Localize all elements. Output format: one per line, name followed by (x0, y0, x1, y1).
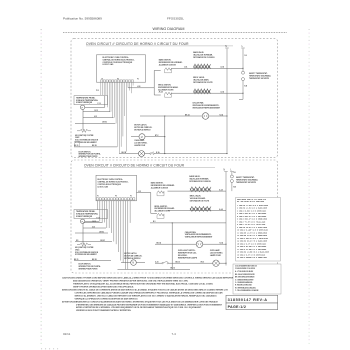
svg-text:7-4: 7-4 (172, 332, 177, 336)
wire JK,N/C (circuit 1) (75, 122, 115, 124)
svg-text:OVEN CIRCUIT // CIRCUITO DE HO: OVEN CIRCUIT // CIRCUITO DE HORNO // CIR… (86, 42, 189, 46)
EOC2 connector pin row (96, 196, 135, 200)
svg-text:SERVICIO AL APARATO. USE SOLO: SERVICIO AL APARATO. USE SOLO CABLE DE R… (75, 294, 218, 297)
svg-text:DOOR SWITCH-: DOOR SWITCH- (79, 264, 92, 266)
svg-text:P5: P5 (137, 78, 139, 80)
bake ignitor E1 (circuit 2) (151, 182, 175, 196)
HSI system note (circuit 2) (75, 247, 99, 256)
svg-text:SYSTEME HSI SEULEMENT: SYSTEME HSI SEULEMENT (75, 142, 97, 144)
svg-text:6-15: 6-15 (94, 116, 97, 118)
svg-text:PAGE:1/2: PAGE:1/2 (228, 305, 247, 309)
wire broil valve row JK-1A / A-1A (172, 92, 244, 94)
svg-text:VERIFIQUE LA OPERACION CORRECT: VERIFIQUE LA OPERACION CORRECTA DESPUES … (75, 297, 139, 300)
bake valve L1 (circuit 1) (193, 51, 215, 69)
electronic oven control U1 (circuit 2) (96, 175, 137, 201)
svg-text:DOOR SWITCH-: DOOR SWITCH- (79, 151, 92, 153)
svg-text:FFGS3025L: FFGS3025L (167, 17, 184, 21)
N rail (circuit 1) (226, 49, 228, 154)
svg-text:D'ENTRETIEN. DES ERREURS DE CA: D'ENTRETIEN. DES ERREURS DE CABLAGE PEUV… (76, 303, 223, 306)
oven circuit 1 dashed enclosure (71, 39, 278, 158)
wire chiller fan row BK-1A / N-1A (circuit 2) (155, 243, 196, 245)
svg-text:DE HORNO-: DE HORNO- (178, 255, 188, 257)
svg-text:MOTOR DE CERROJO-: MOTOR DE CERROJO- (134, 127, 152, 129)
svg-text:INTERRUPTEUR PORTE: INTERRUPTEUR PORTE (79, 156, 99, 158)
svg-text:LUZ DE HORNO-: LUZ DE HORNO- (134, 142, 147, 144)
wire 6-15 (circuit 2) (83, 227, 106, 229)
svg-text:LE EOC GAS: LE EOC GAS (98, 185, 109, 188)
wire broil valve row A-1A (circuit 2) (168, 210, 227, 212)
svg-text:AND DANGEROUS OPERATION. VERIF: AND DANGEROUS OPERATION. VERIFY PROPER O… (73, 280, 189, 283)
bake valve L1 (circuit 2) (189, 175, 211, 192)
broil valve L2 (circuit 2) (190, 195, 211, 212)
wire chiller fan row BK-1A / N-1A (140, 115, 202, 117)
safety thermostat S2 (circuit 1) (242, 71, 272, 80)
dotted header rule (63, 32, 287, 34)
svg-text:SONDE THERMIQUE: SONDE THERMIQUE (76, 102, 93, 104)
svg-text:APRES L'ENTRETIEN DE L'APPAREI: APRES L'ENTRETIEN DE L'APPAREIL. UTILISE… (76, 306, 202, 309)
svg-text:INTERRUPTEUR PORTE: INTERRUPTEUR PORTE (79, 269, 99, 271)
svg-text:HSI (IGNITOR) SYSTEM: HSI (IGNITOR) SYSTEM (75, 247, 94, 249)
oven lamp DS1 (circuit 2) (210, 249, 223, 266)
svg-text:318550147 REV:A: 318550147 REV:A (228, 298, 268, 302)
wire latch motor BT-X (131, 136, 139, 138)
svg-text:P5: P5 (130, 196, 132, 198)
resistor hsi ignitor (circuit 2) (77, 243, 91, 246)
svg-text:R: RED/ROJO/ROUGE: R: RED/ROJO/ROUGE (235, 285, 252, 287)
HSI system note (circuit 1) (75, 135, 99, 144)
bake ignitor E1 (circuit 1) (159, 59, 183, 73)
svg-text:OVEN LIGHT SWITCH-: OVEN LIGHT SWITCH- (178, 250, 196, 252)
latch motor B2 (circuit 1) (134, 124, 152, 140)
oven lamp DS1 (circuit 1) (134, 139, 147, 157)
svg-text:BK-15: BK-15 (74, 259, 79, 261)
L rail (circuit 2) (231, 172, 233, 175)
svg-text:BROIL IGNITOR-: BROIL IGNITOR- (155, 206, 168, 208)
svg-text:WIRING DIAGRAM: WIRING DIAGRAM (153, 27, 185, 31)
wire EOC2 to bake ignitor (137, 192, 151, 194)
svg-text:10-15: 10-15 (92, 221, 96, 223)
wire BK-15 (circuit 1) (74, 146, 117, 148)
svg-text:P-10: P-10 (98, 103, 101, 105)
right perforation dotted line (309, 29, 310, 344)
wire bake valve row A-1A (circuit 2) (168, 190, 227, 192)
wire 10-15 (circuit 2) (83, 222, 103, 224)
safety thermostat S2 (circuit 2) (230, 175, 258, 184)
svg-text:ATENCION:DESCONECTE EL CABLE D: ATENCION:DESCONECTE EL CABLE DE CORRIENT… (62, 289, 229, 292)
wire BK-15 (circuit 2) (74, 260, 111, 262)
wire 10-15 (circuit 1) (83, 111, 110, 113)
svg-text:ONLY-: ONLY- (75, 137, 80, 139)
broil ignitor E2 (circuit 1) (158, 85, 178, 98)
svg-text:BROIL IGNITOR-: BROIL IGNITOR- (158, 85, 171, 87)
wire bake valve row J-1A / A-1A (172, 67, 244, 69)
lamp switch contacts (circuit 1) (150, 153, 151, 154)
color abbreviations table (233, 264, 281, 294)
wire 6-15 (circuit 1) (83, 117, 114, 119)
oven light switch S3 (circuit 2) (178, 250, 198, 259)
svg-text:VERIFY PROPER OPERATION AFTER: VERIFY PROPER OPERATION AFTER SERVICING … (73, 286, 134, 289)
svg-text:HSI (IGNITOR) SYSTEM: HSI (IGNITOR) SYSTEM (75, 135, 94, 137)
EOC1 connector pin row P1-P14 (101, 78, 139, 82)
lamp switch contacts (circuit 2) (162, 263, 163, 264)
svg-text:B-5: B-5 (153, 221, 156, 223)
wire harness bundle from EOC2 (98, 201, 131, 270)
L rail (circuit 1) (242, 49, 244, 72)
N rail (circuit 2) (225, 172, 227, 266)
svg-text:M: M (141, 136, 143, 139)
ignitor rail vertical (circuit 2) (150, 193, 152, 214)
broil valve L2 (circuit 1) (193, 76, 213, 94)
svg-text:LUZ DE HORNO-: LUZ DE HORNO- (210, 253, 223, 255)
chiller fan motor B1 (circuit 1) (192, 102, 220, 120)
svg-text:W-15: W-15 (201, 262, 205, 264)
svg-text:10-15: 10-15 (94, 110, 98, 112)
svg-text:Publication No. 5995586089: Publication No. 5995586089 (63, 17, 102, 21)
chiller fan motor B1 (circuit 2) (185, 231, 213, 248)
door switch S1 (circuit 1) (75, 141, 102, 158)
wire BK-14 bottom (circuit 2) (118, 268, 191, 270)
wire oven lamp row (circuit 2) (155, 262, 162, 264)
svg-text:J-15: J-15 (138, 191, 141, 193)
wire L-1B from harness to ignitor rail (circuit 1) (128, 87, 154, 89)
svg-text:COULEURS/DE COLORES: COULEURS/DE COLORES (235, 268, 255, 270)
wire latch motor (circuit 2) (121, 262, 131, 264)
electronic oven control U1 (circuit 1) (97, 55, 146, 82)
svg-text:02/11: 02/11 (63, 332, 71, 336)
svg-text:CAUTION:DISCONNECT POWER CORD: CAUTION:DISCONNECT POWER CORD BEFORE SER… (62, 277, 234, 280)
svg-text:OVEN CIRCUIT // CIRCUITO DE HO: OVEN CIRCUIT // CIRCUITO DE HORNO // CIR… (84, 164, 185, 168)
svg-text:VERIFIER LE BON FONCTIONNEMENT: VERIFIER LE BON FONCTIONNEMENT APRES L'E… (76, 309, 132, 312)
svg-text:P-11: P-11 (96, 90, 99, 92)
wire MC (circuit 2) (75, 241, 112, 243)
wire chart table (236, 197, 281, 261)
svg-text:BT-X: BT-X (155, 135, 158, 137)
wire JK,N/C (circuit 2) (75, 232, 108, 234)
svg-text:SONDE THERMIQUE: SONDE THERMIQUE (76, 216, 93, 218)
svg-text:G: GREEN/VERDE/VERT: G: GREEN/VERDE/VERT (235, 279, 254, 281)
resistor hsi ignitor (circuit 1) (77, 129, 91, 132)
wire probe to EOC2 (85, 220, 99, 222)
svg-text:M: M (132, 263, 134, 265)
svg-text:LE EOC GAS: LE EOC GAS (103, 63, 115, 66)
svg-text:INTERRUPTOR DE LUZ-: INTERRUPTOR DE LUZ- (178, 253, 197, 255)
svg-text:P8: P8 (115, 196, 117, 198)
oven circuit 2 dashed enclosure (71, 160, 278, 273)
bottom perforation dots (41, 348, 58, 349)
temperature probe RT1 (circuit 2) (74, 210, 108, 224)
svg-text:MC-: MC- (76, 240, 79, 242)
svg-text:BK-15: BK-15 (176, 262, 181, 264)
svg-text:P1: P1 (97, 196, 99, 198)
temperature probe RT1 (circuit 1) (74, 96, 108, 110)
ignitor rail vertical (circuit 1) (153, 71, 155, 96)
wire stub left (circuit 1) (82, 109, 84, 130)
svg-text:CONTROLES. ERRORES DE CABLEADO: CONTROLES. ERRORES DE CABLEADO PUEDEN CA… (75, 291, 224, 294)
svg-text:ATTENTION:DEBRANCHER LE CORDON: ATTENTION:DEBRANCHER LE CORDON D'ALIMENT… (62, 300, 218, 303)
broil ignitor E2 (circuit 2) (155, 206, 175, 219)
junction vertical rail (circuit 1) (164, 116, 166, 154)
mid rail wire (circuit 2) (150, 222, 226, 224)
svg-text:SYSTEME HSI SEULEMENT: SYSTEME HSI SEULEMENT (75, 254, 97, 256)
door switch S1 (circuit 2) (79, 264, 102, 271)
part number box 318550147 REV:A (226, 295, 278, 303)
page number box PAGE:1/2 (226, 303, 278, 310)
wire harness bundle from EOC1 (101, 82, 133, 153)
svg-text:MOTOR DE CERROJO-: MOTOR DE CERROJO- (124, 256, 142, 258)
wire probe to EOC1 (85, 106, 105, 108)
left perforation dotted line (41, 29, 42, 344)
caution notes block (62, 277, 234, 312)
wire oven lamp row (circuit 1) (119, 153, 138, 155)
latch motor B2 (circuit 2) (124, 252, 142, 265)
svg-text:ONLY-: ONLY- (75, 249, 80, 251)
svg-text:6-15: 6-15 (92, 226, 95, 228)
svg-text:THERMOPLASTIC OR EQUIVALENT. A: THERMOPLASTIC OR EQUIVALENT. ALL ACCESSI… (73, 283, 214, 286)
wire stub left (circuit 2) (82, 223, 84, 244)
svg-text:P-10: P-10 (97, 217, 100, 219)
